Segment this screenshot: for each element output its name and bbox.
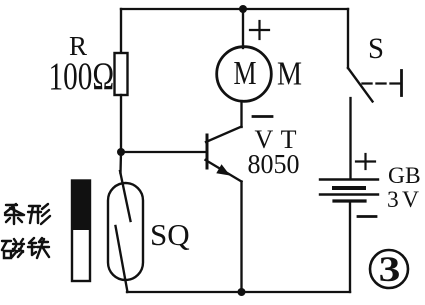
label + battery terminal: [356, 154, 375, 169]
wire motor to collector: [240, 101, 242, 127]
label tiao xing (bar) hand-drawn: [5, 204, 24, 224]
wire left branch upper: [120, 9, 122, 54]
wire base node to reed switch: [119, 152, 122, 173]
resistor R: [115, 53, 128, 95]
switch S blade: [348, 68, 373, 102]
label 100 ohm value: [49, 55, 115, 98]
transistor VT emitter lead: [206, 160, 242, 182]
bar magnet: [72, 180, 91, 281]
reed switch SQ upper contact: [120, 171, 131, 221]
svg-text:GB: GB: [388, 163, 421, 189]
figure number 3 digit: [379, 248, 401, 289]
switch S actuator bar: [400, 71, 403, 96]
wire right branch upper: [347, 9, 349, 68]
wire battery to bottom rail: [349, 201, 351, 292]
wire bottom rail: [127, 291, 350, 293]
wire base: [121, 151, 205, 153]
switch S actuator dashed link: [363, 82, 401, 84]
svg-text:100Ω: 100Ω: [49, 55, 115, 98]
svg-text:SQ: SQ: [150, 217, 190, 252]
svg-text:3V: 3V: [387, 187, 419, 213]
svg-text:8050: 8050: [248, 148, 300, 179]
transistor VT base bar: [206, 135, 209, 168]
figure number 3 circle: [370, 250, 408, 288]
svg-text:M: M: [234, 55, 257, 92]
transistor VT collector lead: [206, 127, 242, 143]
label - battery terminal: [358, 215, 376, 218]
label xing (shape) hand-drawn: [28, 204, 50, 224]
node base junction: [117, 148, 125, 156]
node top junction: [239, 5, 247, 13]
label ci (magnet) hand-drawn: [2, 239, 24, 258]
node bottom junction: [238, 288, 246, 296]
reed switch SQ envelope: [108, 183, 143, 280]
wire resistor to base node: [120, 95, 122, 152]
battery GB plates: [320, 180, 378, 202]
label tie (iron) hand-drawn: [28, 238, 49, 258]
label - motor terminal: [253, 115, 272, 118]
label + motor terminal: [250, 21, 269, 39]
motor M circle: [217, 47, 272, 102]
wire top rail: [121, 8, 348, 10]
transistor VT emitter arrow: [217, 166, 228, 175]
wire emitter to bottom rail: [240, 182, 242, 293]
svg-text:3: 3: [379, 248, 401, 289]
wire switch to battery: [349, 98, 351, 179]
svg-text:M: M: [277, 56, 302, 93]
reed switch SQ lower contact: [116, 226, 128, 292]
wire motor top lead: [242, 9, 244, 48]
svg-text:S: S: [368, 32, 384, 65]
